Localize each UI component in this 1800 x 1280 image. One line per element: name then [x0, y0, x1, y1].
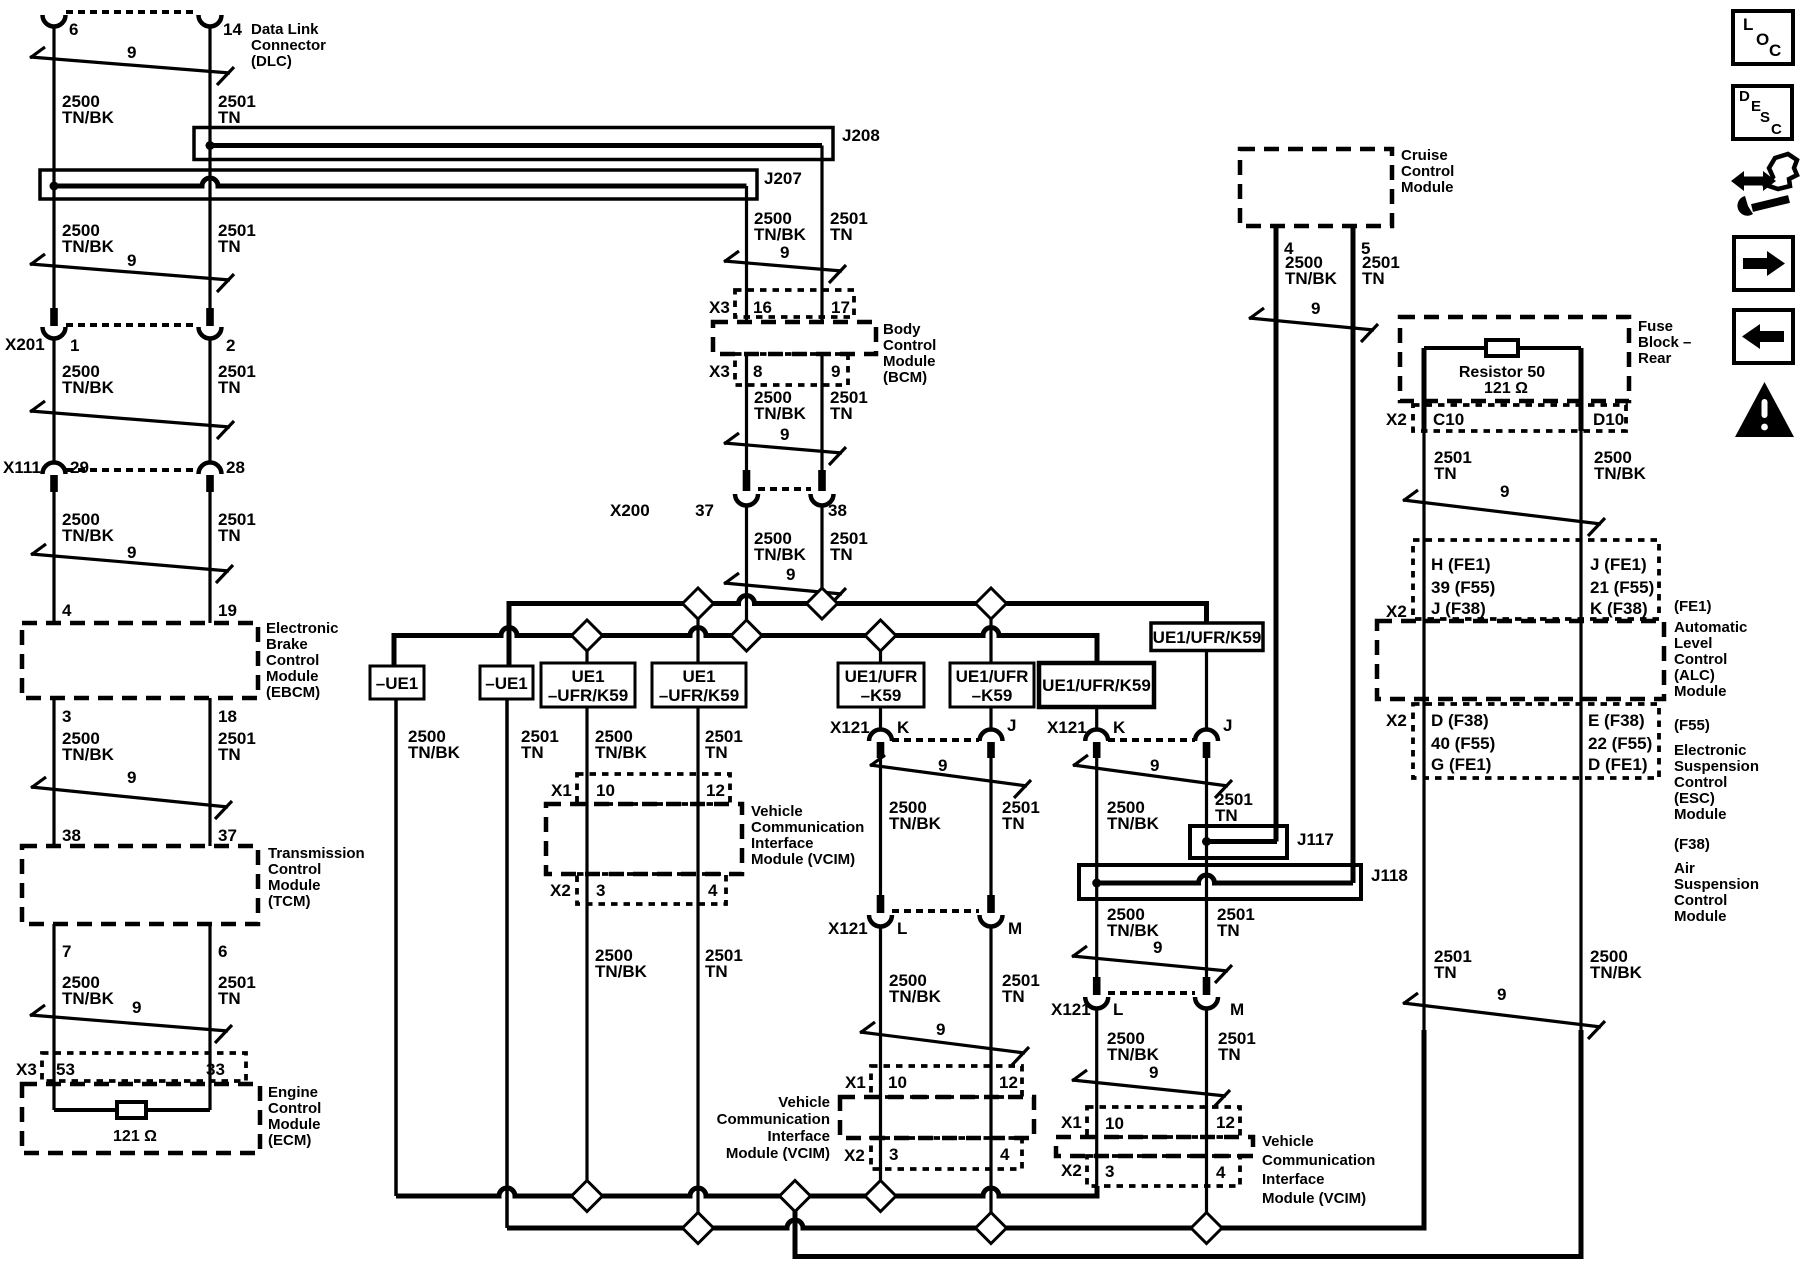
connector X3 (BCM) row 1 box [735, 290, 854, 317]
svg-text:C10: C10 [1433, 410, 1464, 429]
svg-text:9: 9 [786, 565, 795, 584]
svg-text:Suspension: Suspension [1674, 758, 1759, 775]
wire 2501 TN resistor to C10 [1422, 348, 1427, 431]
svg-text:J118: J118 [1371, 866, 1408, 885]
svg-text:9: 9 [1150, 756, 1159, 775]
svg-text:K: K [1113, 718, 1126, 737]
svg-text:D: D [1739, 88, 1750, 105]
svg-text:Control: Control [1401, 163, 1454, 180]
svg-text:(EBCM): (EBCM) [266, 684, 320, 701]
svg-text:37: 37 [218, 826, 237, 845]
bus splice diamond [572, 1181, 603, 1212]
connector X200 pin 37 [743, 470, 751, 491]
svg-text:16: 16 [753, 298, 772, 317]
resistor 50 (fuse block) [1486, 340, 1518, 356]
svg-text:TN/BK: TN/BK [62, 108, 115, 127]
X111 dashed link [66, 468, 198, 472]
wire through VCIM1 pin 10 to pin 3 [585, 774, 588, 904]
svg-text:X121: X121 [830, 718, 870, 737]
wire 2500 TN/BK to VCIM2 [879, 927, 882, 1197]
wire 2500 TN/BK EBCM to TCM [52, 698, 55, 846]
svg-text:G (FE1): G (FE1) [1431, 755, 1491, 774]
svg-text:9: 9 [127, 543, 136, 562]
wire 2501 TN to VCIM3 [1205, 1009, 1208, 1229]
svg-text:TN: TN [1434, 963, 1457, 982]
svg-text:–K59: –K59 [972, 686, 1013, 705]
svg-text:TN/BK: TN/BK [889, 987, 942, 1006]
wire 2500 TN/BK to VCIM3 [1095, 1009, 1098, 1187]
twisted pair symbol 9 [31, 554, 229, 571]
svg-text:O: O [1756, 30, 1769, 49]
bus splice diamond [865, 1181, 896, 1212]
svg-text:X2: X2 [1386, 711, 1407, 730]
svg-text:Interface: Interface [767, 1128, 830, 1145]
svg-text:TN/BK: TN/BK [62, 237, 115, 256]
svg-text:Control: Control [1674, 651, 1727, 668]
svg-text:Level: Level [1674, 635, 1712, 652]
connector X111 pin 28 [199, 463, 222, 475]
svg-text:X200: X200 [610, 501, 650, 520]
svg-text:Control: Control [883, 337, 936, 354]
svg-text:38: 38 [828, 501, 847, 520]
svg-text:Module: Module [266, 668, 319, 685]
svg-text:Vehicle: Vehicle [751, 803, 803, 820]
data link connector (DLC) pin 14 socket [199, 15, 222, 27]
svg-text:(FE1): (FE1) [1674, 598, 1712, 615]
connector X121 L (branch3) [1093, 977, 1101, 995]
svg-text:J: J [1007, 716, 1016, 735]
connector X201 pin 1 [50, 308, 58, 326]
bus splice diamond [780, 1181, 811, 1212]
icon DESC box [1733, 86, 1792, 139]
X201 dashed link [66, 323, 198, 327]
svg-text:D (FE1): D (FE1) [1588, 755, 1648, 774]
svg-text:TN: TN [1215, 806, 1238, 825]
icon warning triangle [1735, 382, 1794, 437]
wire 2501 TN to VCIM2 [989, 927, 992, 1229]
wire through VCIM1 pin 12 to pin 4 [696, 774, 699, 904]
module ECM box [22, 1084, 260, 1153]
svg-text:Module: Module [1401, 179, 1454, 196]
bus splice diamond [865, 620, 896, 651]
splice J207 wire with tap dot and hop [54, 178, 747, 186]
svg-text:Interface: Interface [751, 835, 814, 852]
svg-text:Suspension: Suspension [1674, 876, 1759, 893]
connector X121 L [877, 895, 885, 913]
connector X201 pin 2 [206, 308, 214, 326]
svg-text:18: 18 [218, 707, 237, 726]
svg-text:9: 9 [1149, 1063, 1158, 1082]
svg-text:2: 2 [226, 336, 235, 355]
twisted pair symbol 9 (DLC) [30, 57, 230, 73]
wire 2500 TN/BK VCIM1 to bus3 [585, 904, 588, 1196]
svg-text:(F38): (F38) [1674, 836, 1710, 853]
wire 2500 TN/BK resistor to D10 [1579, 348, 1584, 431]
svg-text:TN: TN [705, 962, 728, 981]
svg-text:UE1: UE1 [571, 667, 604, 686]
svg-text:J117: J117 [1297, 830, 1334, 849]
svg-text:Module: Module [1674, 683, 1727, 700]
svg-text:19: 19 [218, 601, 237, 620]
svg-text:9: 9 [132, 998, 141, 1017]
svg-text:6: 6 [218, 942, 227, 961]
svg-text:Data Link: Data Link [251, 21, 319, 38]
svg-text:X3: X3 [16, 1060, 37, 1079]
X121 dashed link [892, 909, 979, 913]
connector X2 (VCIM2) box [871, 1138, 1022, 1169]
wire 2501 TN J208 to BCM [820, 146, 823, 323]
bus 2500 (third) with hops [396, 1186, 1097, 1196]
resistor 121 ohm (ECM) [117, 1102, 146, 1118]
bus splice diamond [976, 1213, 1007, 1244]
icon arrow left box [1734, 310, 1793, 363]
connector X1 (VCIM3) box [1087, 1107, 1240, 1137]
twisted pair symbol 9 [1403, 500, 1601, 524]
connector X2 (fuse block) box [1413, 405, 1626, 431]
svg-text:TN: TN [1002, 987, 1025, 1006]
icon LOC box [1733, 11, 1793, 64]
svg-text:10: 10 [596, 781, 615, 800]
bus splice diamond [1191, 1213, 1222, 1244]
wire 2500 TN/BK X201 to X111 [52, 339, 55, 463]
svg-text:TN: TN [830, 545, 853, 564]
module Cruise Control box [1240, 149, 1392, 226]
svg-text:9: 9 [936, 1020, 945, 1039]
svg-text:UE1/UFR: UE1/UFR [845, 667, 918, 686]
svg-text:12: 12 [999, 1073, 1018, 1092]
twisted pair symbol 9 [1073, 765, 1228, 786]
wire from bus to VCIM1 pin 10 branch box [585, 636, 588, 664]
connector X121 K (branch3) [1085, 730, 1108, 742]
wire 2500 TN/BK X111 to EBCM [52, 492, 55, 623]
svg-text:Air: Air [1674, 860, 1695, 877]
svg-text:Control: Control [1674, 774, 1727, 791]
wire 2500 TN/BK X200 to bus [745, 506, 748, 636]
bus splice diamond [976, 588, 1007, 619]
connector X3 (BCM) row 2 box [735, 354, 848, 385]
svg-text:6: 6 [69, 20, 78, 39]
svg-text:TN: TN [830, 404, 853, 423]
svg-text:–UFR/K59: –UFR/K59 [548, 686, 628, 705]
svg-text:9: 9 [1500, 482, 1509, 501]
svg-text:Module (VCIM): Module (VCIM) [1262, 1190, 1366, 1207]
svg-text:X2: X2 [1386, 602, 1407, 621]
wire 2500 TN/BK D10 down [1579, 431, 1582, 1030]
svg-text:TN: TN [1362, 269, 1385, 288]
svg-text:Rear: Rear [1638, 350, 1672, 367]
svg-text:TN: TN [218, 526, 241, 545]
X121 dashed link [892, 738, 979, 742]
svg-text:TN: TN [1217, 921, 1240, 940]
svg-text:Control: Control [268, 861, 321, 878]
svg-text:4: 4 [62, 601, 72, 620]
twisted pair symbol 9 [860, 1032, 1025, 1053]
svg-text:J: J [1223, 716, 1232, 735]
connector X200 pin 38 [818, 470, 826, 491]
twisted pair symbol 9 (right) [1403, 1003, 1601, 1027]
wire 2500 TN/BK box to X121 K [1095, 707, 1098, 730]
svg-text:Interface: Interface [1262, 1171, 1325, 1188]
wire 2501 TN through J117/J118 [1205, 758, 1208, 977]
DLC connector dashed link [66, 10, 198, 14]
wire 2501 TN box to X121 J [1205, 651, 1208, 730]
svg-text:Module (VCIM): Module (VCIM) [726, 1145, 830, 1162]
svg-text:J207: J207 [764, 169, 802, 188]
connector X111 pin 29 [43, 463, 66, 475]
splice bus J208 box [194, 128, 833, 160]
svg-text:TN/BK: TN/BK [62, 745, 115, 764]
connector X121 K [869, 730, 892, 742]
splice bus J207 box [40, 170, 757, 199]
wire 2501 TN to VCIM1 X1 [696, 707, 699, 774]
svg-text:(ALC): (ALC) [1674, 667, 1715, 684]
wire 2501 TN cruise to J118 [1351, 226, 1356, 883]
wire 2500 TN/BK -UE1 branch [394, 699, 398, 1196]
svg-text:Connector: Connector [251, 37, 326, 54]
twisted pair symbol 9 [30, 1015, 228, 1031]
svg-text:TN: TN [218, 378, 241, 397]
svg-text:TN/BK: TN/BK [1107, 814, 1160, 833]
svg-text:TN: TN [218, 745, 241, 764]
svg-text:Module: Module [1674, 908, 1727, 925]
splice bus J118 box [1079, 865, 1361, 899]
svg-text:21 (F55): 21 (F55) [1590, 578, 1654, 597]
module ALC box [1377, 621, 1664, 699]
svg-text:22 (F55): 22 (F55) [1588, 734, 1652, 753]
branch code box UE1/UFR/K59 (right) [1151, 623, 1263, 651]
svg-text:28: 28 [226, 458, 245, 477]
svg-text:X2: X2 [550, 881, 571, 900]
svg-text:Engine: Engine [268, 1084, 318, 1101]
svg-text:9: 9 [127, 768, 136, 787]
svg-text:Vehicle: Vehicle [1262, 1133, 1314, 1150]
svg-text:38: 38 [62, 826, 81, 845]
wire 2500 TN/BK through J118 [1095, 758, 1098, 977]
svg-text:121 Ω: 121 Ω [1484, 380, 1528, 397]
twisted pair symbol 9 [1072, 956, 1228, 971]
svg-text:Module: Module [883, 353, 936, 370]
svg-text:10: 10 [1105, 1114, 1124, 1133]
svg-text:L: L [1113, 1000, 1123, 1019]
module VCIM1 box [546, 804, 742, 874]
svg-text:Module: Module [268, 877, 321, 894]
svg-text:Transmission: Transmission [268, 845, 365, 862]
svg-text:Communication: Communication [717, 1111, 830, 1128]
svg-text:L: L [897, 919, 907, 938]
wire to X121 J [989, 707, 992, 730]
svg-text:3: 3 [62, 707, 71, 726]
bus 2501 (upper) with hop over 2500 wire [509, 596, 1207, 667]
svg-text:9: 9 [938, 756, 947, 775]
svg-text:X111: X111 [3, 458, 41, 477]
svg-text:Control: Control [268, 1100, 321, 1117]
branch code box UE1/UFR -K59 [838, 663, 924, 707]
ECM internal wire [54, 1108, 117, 1112]
svg-text:J (F38): J (F38) [1431, 599, 1486, 618]
wire 2501 TN -UE1 branch [505, 699, 509, 1228]
svg-text:9: 9 [1311, 299, 1320, 318]
splice J118 wire with tap dot and hop [1097, 875, 1353, 883]
svg-text:Module (VCIM): Module (VCIM) [751, 851, 855, 868]
svg-text:M: M [1230, 1000, 1244, 1019]
svg-text:K: K [897, 718, 910, 737]
svg-text:Fuse: Fuse [1638, 318, 1673, 335]
X121 dashed link [1108, 991, 1195, 995]
wire 2501 TN X121 to X121 [989, 758, 992, 895]
svg-text:C: C [1769, 41, 1781, 60]
svg-text:29: 29 [70, 458, 89, 477]
wire bus2 to UE1/UFR-K59 box [879, 636, 882, 664]
svg-text:X1: X1 [551, 781, 572, 800]
svg-text:37: 37 [695, 501, 714, 520]
svg-text:9: 9 [1153, 938, 1162, 957]
svg-text:7: 7 [62, 942, 71, 961]
branch code box -UE1 [370, 666, 424, 699]
svg-text:Vehicle: Vehicle [778, 1094, 830, 1111]
svg-text:(ECM): (ECM) [268, 1132, 311, 1149]
branch code box UE1 -UFR/K59 [652, 663, 746, 707]
twisted pair symbol 9 [31, 787, 228, 807]
connector X121 J [980, 730, 1003, 742]
svg-text:TN: TN [218, 237, 241, 256]
twisted pair symbol 9 (cruise) [1249, 318, 1374, 330]
svg-text:E (F38): E (F38) [1588, 711, 1645, 730]
svg-text:Block –: Block – [1638, 334, 1691, 351]
svg-text:X1: X1 [845, 1073, 866, 1092]
svg-text:1: 1 [70, 336, 79, 355]
svg-text:TN/BK: TN/BK [595, 743, 648, 762]
svg-text:9: 9 [780, 425, 789, 444]
svg-text:–UE1: –UE1 [376, 674, 419, 693]
svg-text:TN: TN [705, 743, 728, 762]
svg-text:UE1/UFR/K59: UE1/UFR/K59 [1042, 676, 1151, 695]
svg-text:Resistor 50: Resistor 50 [1459, 364, 1545, 381]
svg-text:K (F38): K (F38) [1590, 599, 1648, 618]
connector X2 (ALC) box [1413, 540, 1659, 619]
icon arrow right box [1734, 237, 1793, 290]
svg-text:X3: X3 [709, 362, 730, 381]
svg-text:X121: X121 [1051, 1000, 1091, 1019]
svg-text:UE1: UE1 [682, 667, 715, 686]
svg-text:9: 9 [780, 243, 789, 262]
svg-text:4: 4 [1000, 1145, 1010, 1164]
branch code box -UE1 [480, 666, 533, 699]
wire from bus to VCIM1 pin 12 branch box [696, 604, 699, 664]
splice J117 wire with tap dot [1207, 839, 1278, 844]
wire to X121 K [879, 707, 882, 730]
connector X1 (VCIM2) box [871, 1066, 1022, 1097]
X200 dashed link [758, 487, 811, 491]
svg-text:40 (F55): 40 (F55) [1431, 734, 1495, 753]
svg-text:UE1/UFR: UE1/UFR [956, 667, 1029, 686]
wire 2500 TN/BK TCM to ECM [52, 924, 55, 1110]
svg-text:X121: X121 [1047, 718, 1087, 737]
svg-text:TN/BK: TN/BK [754, 404, 807, 423]
svg-text:33: 33 [206, 1060, 225, 1079]
svg-text:TN/BK: TN/BK [1594, 464, 1647, 483]
module VCIM3 box [1056, 1137, 1253, 1156]
wire 2501 TN X201 to X111 [208, 339, 211, 463]
svg-text:TN/BK: TN/BK [1107, 921, 1160, 940]
svg-text:9: 9 [127, 251, 136, 270]
svg-text:Automatic: Automatic [1674, 619, 1747, 636]
branch code box UE1/UFR/K59 [1039, 663, 1154, 707]
wire 2501 TN BCM to X200 [820, 354, 823, 470]
svg-text:–UE1: –UE1 [485, 674, 528, 693]
svg-text:TN: TN [1434, 464, 1457, 483]
wire 2501 TN DLC to X201 [208, 27, 211, 309]
connector X1 (VCIM1) box [577, 774, 730, 804]
bus splice diamond [683, 1213, 714, 1244]
svg-text:TN/BK: TN/BK [754, 225, 807, 244]
svg-text:14: 14 [223, 20, 242, 39]
svg-text:Communication: Communication [1262, 1152, 1375, 1169]
wire 2501 TN EBCM to TCM [208, 698, 211, 846]
svg-text:TN/BK: TN/BK [62, 378, 115, 397]
svg-text:(TCM): (TCM) [268, 893, 310, 910]
module TCM box [22, 846, 258, 924]
twisted pair symbol 9 (BCM) [724, 261, 842, 271]
svg-text:TN: TN [1002, 814, 1025, 833]
svg-text:L: L [1743, 15, 1753, 34]
twisted pair symbol 9 [724, 443, 842, 453]
module VCIM2 box [840, 1097, 1034, 1138]
svg-text:X2: X2 [1386, 410, 1407, 429]
svg-text:10: 10 [888, 1073, 907, 1092]
connector X2 (VCIM1) box [577, 874, 726, 904]
svg-text:9: 9 [831, 362, 840, 381]
svg-text:53: 53 [56, 1060, 75, 1079]
bus 2500 bottom run to ESC [795, 1030, 1581, 1257]
svg-text:TN/BK: TN/BK [1107, 1045, 1160, 1064]
wire 2500 TN/BK J207 to BCM [745, 186, 748, 322]
svg-text:(ESC): (ESC) [1674, 790, 1715, 807]
module BCM box [713, 322, 876, 354]
branch code box UE1/UFR -K59 [950, 663, 1034, 707]
wire 2500 TN/BK cruise to J117 [1274, 226, 1279, 842]
svg-text:M: M [1008, 919, 1022, 938]
wire 2500 TN/BK BCM to X200 [745, 354, 748, 470]
svg-text:4: 4 [1216, 1163, 1226, 1182]
connector X2 (ESC) box [1413, 704, 1659, 778]
svg-text:J208: J208 [842, 126, 880, 145]
svg-text:Module: Module [1674, 806, 1727, 823]
wire 2500 TN/BK DLC to X201 [52, 27, 55, 309]
svg-text:D (F38): D (F38) [1431, 711, 1489, 730]
svg-text:D10: D10 [1593, 410, 1624, 429]
wire 2501 TN C10 down [1422, 431, 1425, 1030]
svg-text:(BCM): (BCM) [883, 369, 927, 386]
svg-text:J (FE1): J (FE1) [1590, 555, 1647, 574]
bus splice diamond [572, 620, 603, 651]
svg-text:Cruise: Cruise [1401, 147, 1448, 164]
bus splice diamond [807, 588, 838, 619]
svg-text:Brake: Brake [266, 636, 308, 653]
svg-text:TN/BK: TN/BK [408, 743, 461, 762]
svg-text:3: 3 [889, 1145, 898, 1164]
svg-text:Control: Control [266, 652, 319, 669]
svg-text:X2: X2 [844, 1146, 865, 1165]
svg-text:C: C [1771, 121, 1782, 138]
svg-text:S: S [1760, 109, 1770, 126]
svg-text:TN: TN [218, 108, 241, 127]
svg-text:H (FE1): H (FE1) [1431, 555, 1491, 574]
connector X2 (VCIM3) box [1087, 1156, 1240, 1186]
connector X3 (ECM) box [42, 1053, 246, 1081]
twisted pair symbol [30, 411, 230, 427]
svg-text:Electronic: Electronic [1674, 742, 1747, 759]
svg-text:X3: X3 [709, 298, 730, 317]
